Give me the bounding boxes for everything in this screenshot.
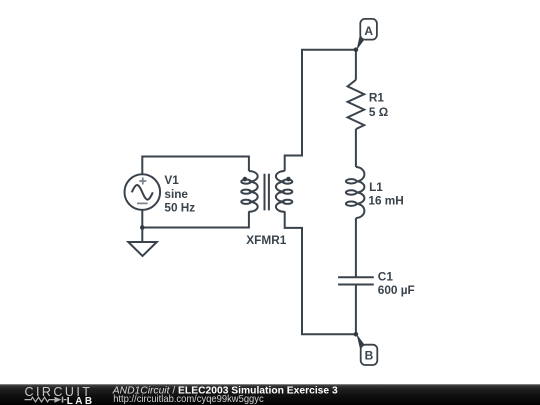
svg-text:LAB: LAB: [67, 396, 95, 405]
svg-text:XFMR1: XFMR1: [246, 233, 286, 247]
svg-text:V1: V1: [164, 173, 179, 187]
svg-text:600 µF: 600 µF: [378, 283, 415, 297]
svg-text:A: A: [364, 24, 373, 38]
svg-text:C1: C1: [378, 269, 394, 283]
svg-text:L1: L1: [369, 180, 383, 194]
svg-text:R1: R1: [369, 91, 385, 105]
svg-text:50 Hz: 50 Hz: [164, 200, 195, 214]
svg-text:5 Ω: 5 Ω: [369, 105, 388, 119]
svg-text:16 mH: 16 mH: [368, 194, 403, 208]
svg-text:http://circuitlab.com/cyqe99kw: http://circuitlab.com/cyqe99kw5ggyc: [113, 393, 264, 405]
svg-text:B: B: [365, 349, 374, 363]
svg-text:sine: sine: [164, 187, 188, 201]
